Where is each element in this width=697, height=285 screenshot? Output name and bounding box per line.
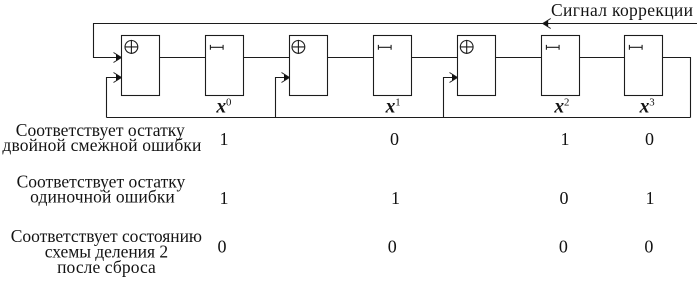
svg-text:1: 1 (561, 129, 570, 149)
svg-text:0: 0 (645, 129, 654, 149)
wire: U3 output to delay D2 (496, 57, 542, 59)
svg-text:x: x (553, 97, 564, 118)
wire: feedback tap up into U1 second input (107, 78, 121, 118)
label row 3: Соответствует состоянию схемы деления 2 после сброса (11, 226, 202, 277)
label row 1: Соответствует остатку двойной смежной ошибки (2, 120, 201, 155)
svg-text:x: x (385, 97, 396, 118)
svg-text:x: x (215, 97, 226, 118)
wire: D1 output to XOR U3 (412, 57, 458, 59)
svg-text:1: 1 (220, 129, 229, 149)
svg-text:1: 1 (646, 188, 655, 208)
arrowhead: into XOR U3 second input (450, 73, 458, 83)
label: x^3 (639, 96, 655, 117)
XOR adder U2 box (290, 36, 328, 96)
XOR adder U1 box (122, 36, 160, 96)
svg-text:1: 1 (391, 188, 400, 208)
svg-text:1: 1 (395, 96, 400, 108)
wire: D3 output right side down to feedback bus (663, 58, 691, 118)
wire: D0 output to XOR U2 (244, 57, 290, 59)
svg-text:0: 0 (390, 129, 399, 149)
delay element D1 box (x^1) (374, 36, 412, 96)
node values row 3: state 0 0 0 0 (218, 236, 654, 256)
XOR adder U3 box (458, 36, 496, 96)
svg-text:после сброса: после сброса (57, 257, 156, 277)
delay element D0 box (x^0) (206, 36, 244, 96)
wire: U1 output to delay D0 (160, 57, 206, 59)
svg-text:0: 0 (644, 236, 653, 256)
wire: feedback tap up into U3 second input (444, 78, 457, 118)
svg-text:двойной смежной ошибки: двойной смежной ошибки (2, 135, 201, 155)
label: x^1 (385, 96, 401, 117)
wire: U2 output to delay D1 (328, 57, 374, 59)
delay element D3 box (x^3) (625, 36, 663, 96)
svg-text:0: 0 (559, 236, 568, 256)
svg-text:1: 1 (220, 188, 229, 208)
label: Сигнал коррекции (551, 0, 693, 20)
wire: feedback tap up into U2 second input (276, 78, 289, 118)
arrowhead: into XOR U1 top input (114, 53, 122, 63)
wire: bottom feedback bus (107, 117, 691, 119)
svg-text:3: 3 (649, 96, 654, 108)
svg-text:0: 0 (560, 188, 569, 208)
svg-text:2: 2 (564, 96, 569, 108)
label: x^0 (215, 96, 231, 117)
delay element D2 box (x^2) (542, 36, 580, 96)
svg-text:0: 0 (218, 236, 227, 256)
wire: correction-signal feedback top line (94, 24, 697, 58)
node values row 1: state 1 0 1 0 (220, 129, 655, 149)
svg-text:0: 0 (226, 96, 231, 108)
label: x^2 (553, 96, 569, 117)
arrowhead: into XOR U1 second input (114, 73, 122, 83)
svg-text:0: 0 (388, 236, 397, 256)
arrowhead: correction signal direction (points left) (543, 19, 551, 29)
svg-text:одиночной ошибки: одиночной ошибки (30, 187, 175, 207)
svg-text:Сигнал коррекции: Сигнал коррекции (551, 0, 693, 20)
arrowhead: into XOR U2 second input (282, 73, 290, 83)
wire: D2 output to delay D3 (580, 57, 625, 59)
label row 2: Соответствует остатку одиночной ошибки (17, 172, 186, 207)
svg-text:x: x (639, 97, 650, 118)
node values row 2: state 1 1 0 1 (220, 188, 655, 208)
